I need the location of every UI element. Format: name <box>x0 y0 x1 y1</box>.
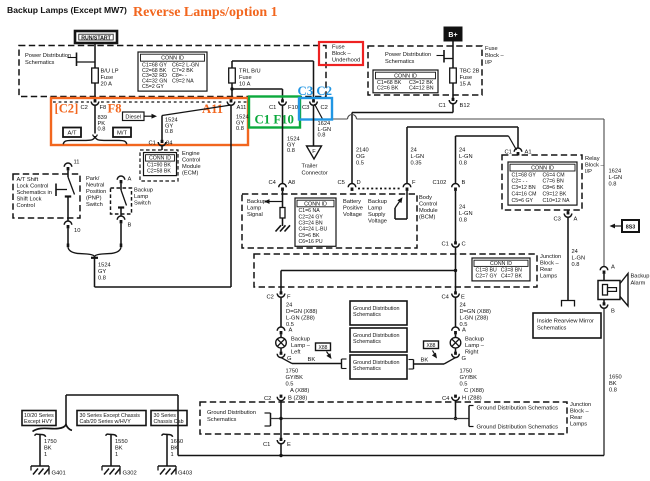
variant tag X88 <box>424 341 439 349</box>
svg-text:Lamp: Lamp <box>368 206 382 212</box>
svg-text:C (X88): C (X88) <box>464 388 484 394</box>
fuse B/U LP 20 A <box>92 68 99 83</box>
svg-text:B12: B12 <box>460 103 470 109</box>
svg-text:Block –: Block – <box>570 409 589 415</box>
svg-text:I/P: I/P <box>585 169 592 175</box>
connector C2 <box>280 395 283 398</box>
svg-text:C1=6 NA: C1=6 NA <box>299 208 321 214</box>
svg-text:D: D <box>357 180 361 186</box>
trailer connector symbol <box>307 146 322 159</box>
svg-text:Ground Distribution Schematics: Ground Distribution Schematics <box>477 406 559 412</box>
svg-text:1750: 1750 <box>44 439 57 445</box>
svg-text:C5=6 BK: C5=6 BK <box>299 233 320 239</box>
backup lamp signal arrow <box>267 201 283 203</box>
connector C1 F10 <box>281 99 284 102</box>
junction <box>230 87 233 90</box>
connector 11 <box>64 163 72 167</box>
svg-text:Left: Left <box>291 350 301 356</box>
wire crossover hop <box>348 115 357 120</box>
connector C4 E <box>454 291 457 294</box>
wire <box>230 105 232 287</box>
connector C3 A <box>567 210 569 212</box>
relay block dashed box <box>502 155 582 210</box>
svg-text:C6=16 PU: C6=16 PU <box>299 239 323 245</box>
connector F <box>403 184 411 188</box>
svg-text:Backup: Backup <box>368 199 387 205</box>
svg-text:Block –: Block – <box>585 163 604 169</box>
svg-text:Schematics: Schematics <box>353 339 381 345</box>
svg-text:0.8: 0.8 <box>98 127 106 133</box>
svg-text:C: C <box>462 242 466 248</box>
svg-text:(ECM): (ECM) <box>182 171 199 177</box>
svg-text:Battery: Battery <box>343 199 361 205</box>
svg-text:1750: 1750 <box>460 369 473 375</box>
svg-text:X88: X88 <box>319 345 328 351</box>
variant tag X88 <box>316 343 331 351</box>
svg-text:Junction: Junction <box>540 254 561 260</box>
svg-text:G302: G302 <box>123 471 137 477</box>
conn ID table junction block <box>472 258 530 281</box>
svg-text:Relay: Relay <box>585 156 600 162</box>
svg-text:(PNP): (PNP) <box>86 196 102 202</box>
svg-text:24: 24 <box>460 303 466 309</box>
svg-text:Neutral: Neutral <box>86 183 104 189</box>
svg-text:C102: C102 <box>433 180 447 186</box>
box Ground Distribution Schematics 2 <box>350 328 407 352</box>
svg-text:Power Distribution: Power Distribution <box>25 53 71 59</box>
wire <box>280 297 282 327</box>
svg-text:Control: Control <box>182 158 200 164</box>
svg-text:C1: C1 <box>439 103 446 109</box>
svg-text:Schematics: Schematics <box>353 366 381 372</box>
wire <box>94 83 96 100</box>
wire <box>67 228 69 243</box>
svg-text:[C2]: [C2] <box>55 102 79 116</box>
svg-text:C2=24 GY: C2=24 GY <box>299 214 324 220</box>
svg-text:Schematics: Schematics <box>25 60 55 66</box>
svg-text:E: E <box>287 442 291 448</box>
svg-text:C4=12 BN: C4=12 BN <box>409 86 434 92</box>
svg-text:Cab/20 Series w/HVY: Cab/20 Series w/HVY <box>80 419 132 425</box>
svg-text:1: 1 <box>44 452 47 458</box>
svg-text:Backup: Backup <box>465 337 484 343</box>
svg-text:Schematics: Schematics <box>385 59 415 65</box>
wire <box>94 43 96 68</box>
engine control module dashed box <box>140 150 178 181</box>
svg-text:0.8: 0.8 <box>572 262 580 268</box>
body control module dashed box <box>242 194 417 248</box>
ground tie wire <box>271 418 456 420</box>
svg-text:(BCM): (BCM) <box>419 215 436 221</box>
fuse block - underhood dashed box <box>19 46 326 97</box>
svg-text:Schematics: Schematics <box>207 417 237 423</box>
svg-text:F: F <box>412 180 416 186</box>
svg-text:CONN ID: CONN ID <box>490 261 512 267</box>
wire <box>282 191 284 208</box>
svg-text:D=GN (X88): D=GN (X88) <box>460 309 492 315</box>
junction block - rear lamps dashed box <box>254 254 537 287</box>
svg-text:Park/: Park/ <box>86 176 100 182</box>
svg-text:Lamp: Lamp <box>247 206 261 212</box>
wire <box>313 105 315 146</box>
svg-text:0.8: 0.8 <box>318 133 326 139</box>
wire <box>280 401 282 438</box>
conn ID table fuse block underhood <box>138 52 207 91</box>
svg-text:X88: X88 <box>427 343 436 349</box>
svg-text:0.8: 0.8 <box>459 218 467 224</box>
backup lamp switch dashed box <box>111 188 132 214</box>
svg-text:C2=7 GY C4=7 BK: C2=7 GY C4=7 BK <box>476 274 523 280</box>
svg-text:TBC 2B: TBC 2B <box>460 69 480 75</box>
svg-text:C4: C4 <box>442 295 450 301</box>
backup lamp switch <box>121 190 127 206</box>
connector C1 B12 <box>452 98 455 101</box>
junction block - rear lamps dashed box (lower) <box>200 402 567 434</box>
connector A <box>277 327 285 331</box>
junction <box>454 269 457 272</box>
svg-text:B: B <box>462 180 466 186</box>
svg-text:BK: BK <box>171 446 179 452</box>
svg-text:G403: G403 <box>178 471 192 477</box>
reference bracket <box>55 184 57 197</box>
svg-text:C3=24 BN: C3=24 BN <box>299 221 323 227</box>
BCM internal driver <box>406 191 408 219</box>
svg-text:CONN ID: CONN ID <box>531 166 554 172</box>
svg-text:F: F <box>287 295 291 301</box>
connector A11 <box>230 99 233 102</box>
svg-text:B: B <box>128 223 132 229</box>
svg-text:C7=6 BN: C7=6 BN <box>543 179 564 185</box>
connector A <box>600 267 608 271</box>
svg-text:Rear: Rear <box>540 267 552 273</box>
wire <box>120 223 122 243</box>
svg-text:G: G <box>462 356 467 362</box>
highlight box cyan <box>299 98 332 120</box>
fuse block - I/P dashed box <box>368 46 482 95</box>
svg-text:0.5: 0.5 <box>286 382 294 388</box>
svg-text:1: 1 <box>115 452 118 458</box>
svg-text:Schematics: Schematics <box>353 312 381 318</box>
svg-text:C1 F10: C1 F10 <box>255 113 294 127</box>
svg-text:0.5: 0.5 <box>356 161 364 167</box>
svg-text:1550: 1550 <box>115 439 128 445</box>
wire <box>452 83 454 98</box>
svg-text:L-GN (Z88): L-GN (Z88) <box>460 316 489 322</box>
svg-text:Module: Module <box>182 164 201 170</box>
wire <box>517 127 519 148</box>
box 30 Series Except Chassis Cab/20 Series w/HVY <box>77 411 146 426</box>
connector A <box>452 327 460 331</box>
svg-text:C2: C2 <box>264 396 271 402</box>
svg-text:0.8: 0.8 <box>98 276 106 282</box>
svg-text:CONN ID: CONN ID <box>394 73 417 79</box>
wire diesel branch <box>162 105 231 116</box>
svg-text:C2=6 BK: C2=6 BK <box>377 86 399 92</box>
arrow <box>144 115 153 117</box>
wire <box>231 61 233 68</box>
svg-text:GY/BK: GY/BK <box>286 375 304 381</box>
svg-text:Lock Control: Lock Control <box>17 184 49 190</box>
svg-text:Switch: Switch <box>86 202 103 208</box>
off-page reference 8S3 <box>610 224 616 229</box>
connector C2 F8 <box>94 99 97 102</box>
svg-text:GY: GY <box>98 269 106 275</box>
svg-text:24: 24 <box>459 148 465 154</box>
box Diesel <box>123 112 145 121</box>
svg-text:Backup Lamps (Except MW7): Backup Lamps (Except MW7) <box>7 5 127 15</box>
svg-text:24: 24 <box>459 205 465 211</box>
wire BK ground branch <box>444 358 456 364</box>
svg-text:BK: BK <box>308 357 316 363</box>
svg-text:Inside Rearview Mirror: Inside Rearview Mirror <box>537 319 594 325</box>
reference bracket <box>68 57 77 59</box>
svg-text:Lamps: Lamps <box>540 274 557 280</box>
svg-text:Switch: Switch <box>134 201 151 207</box>
svg-text:Supply: Supply <box>368 212 386 218</box>
svg-text:A: A <box>462 328 466 334</box>
wire <box>161 146 163 150</box>
dashed connector face line <box>53 101 89 103</box>
svg-text:L-GN: L-GN <box>609 175 623 181</box>
svg-text:G401: G401 <box>52 471 66 477</box>
svg-text:C8=6 BK: C8=6 BK <box>543 185 564 191</box>
svg-text:Underhood: Underhood <box>332 58 360 64</box>
svg-text:C4: C4 <box>442 396 450 402</box>
svg-text:OG: OG <box>356 154 365 160</box>
svg-text:A/T Shift: A/T Shift <box>17 177 39 183</box>
wire <box>280 444 282 456</box>
svg-text:C2: C2 <box>321 105 328 111</box>
svg-text:A11: A11 <box>237 105 247 111</box>
wire <box>281 270 456 272</box>
reference fork to mirror schematics <box>562 301 575 307</box>
svg-text:C10=12 NA: C10=12 NA <box>543 198 571 204</box>
connector B <box>117 216 125 220</box>
svg-text:20 A: 20 A <box>101 82 113 88</box>
svg-text:24: 24 <box>286 303 292 309</box>
wire <box>455 191 457 242</box>
wire merge brace <box>68 247 95 257</box>
svg-text:0.8: 0.8 <box>609 388 617 394</box>
reference bracket <box>456 418 470 420</box>
svg-text:Module: Module <box>419 208 438 214</box>
svg-text:BK: BK <box>115 446 123 452</box>
power symbol RUN/START <box>75 31 117 43</box>
wire <box>603 274 605 281</box>
box 30 Series Chassis Cab <box>151 411 187 426</box>
fuse TBC 2B 15 A <box>450 68 457 83</box>
svg-text:Fuse: Fuse <box>485 46 498 52</box>
connector C5 D <box>348 184 356 188</box>
park/neutral position switch <box>67 170 69 177</box>
box M/T <box>113 128 131 138</box>
svg-text:C5=2 GY: C5=2 GY <box>142 84 164 90</box>
box Ground Distribution Schematics 3 <box>350 355 407 379</box>
svg-text:Backup: Backup <box>247 199 266 205</box>
wire 1624 L-GN <box>315 104 323 119</box>
reference bracket <box>270 413 272 426</box>
svg-text:BK: BK <box>609 381 617 387</box>
wire <box>603 119 605 267</box>
connector B <box>603 302 606 305</box>
svg-text:CONN ID: CONN ID <box>149 156 171 162</box>
svg-text:B/U LP: B/U LP <box>101 69 119 75</box>
svg-text:C1: C1 <box>269 105 276 111</box>
svg-text:F8: F8 <box>108 102 122 116</box>
svg-text:0.8: 0.8 <box>165 129 173 135</box>
svg-text:Connector: Connector <box>302 171 328 177</box>
svg-text:E: E <box>461 295 465 301</box>
svg-text:B (Z88): B (Z88) <box>288 395 307 401</box>
svg-text:A/T: A/T <box>67 131 76 137</box>
svg-text:H (Z88): H (Z88) <box>462 395 482 401</box>
connector C4 A8 <box>279 184 287 188</box>
svg-text:Engine: Engine <box>182 151 200 157</box>
svg-text:Junction: Junction <box>570 402 591 408</box>
svg-text:A (X88): A (X88) <box>290 388 309 394</box>
conn ID table ECM <box>144 153 177 176</box>
svg-text:C1: C1 <box>149 141 156 147</box>
svg-text:Reverse Lamps/option 1: Reverse Lamps/option 1 <box>133 5 278 20</box>
svg-text:Except HVY: Except HVY <box>24 419 53 425</box>
svg-text:F: F <box>312 149 316 155</box>
fuse TRL B/U 10 A <box>229 68 236 83</box>
reference bracket <box>341 359 343 369</box>
backup alarm (speaker) <box>598 281 620 300</box>
svg-text:Schematics: Schematics <box>537 326 567 332</box>
wire <box>603 300 605 303</box>
connector A <box>117 176 125 180</box>
wire <box>455 297 457 327</box>
conn ID table relay block <box>508 162 577 205</box>
svg-text:I/P: I/P <box>485 60 492 66</box>
svg-text:TRL B/U: TRL B/U <box>239 69 261 75</box>
wire split brace <box>63 137 95 145</box>
svg-text:Block –: Block – <box>540 261 559 267</box>
svg-text:Ground Distribution: Ground Distribution <box>207 410 256 416</box>
svg-text:Block –: Block – <box>485 53 504 59</box>
svg-text:C4: C4 <box>269 180 277 186</box>
svg-text:C4=16 CM: C4=16 CM <box>512 192 537 198</box>
svg-text:0.5: 0.5 <box>460 382 468 388</box>
svg-text:Backup: Backup <box>631 274 650 280</box>
wire BK ground branch <box>281 358 292 364</box>
wire <box>455 401 457 419</box>
svg-text:Schematics in: Schematics in <box>17 190 52 196</box>
svg-text:24: 24 <box>572 249 578 255</box>
svg-text:Position: Position <box>86 189 106 195</box>
svg-text:8S3: 8S3 <box>626 225 636 231</box>
svg-text:C2=58 BK: C2=58 BK <box>147 168 171 174</box>
svg-text:Alarm: Alarm <box>631 281 646 287</box>
svg-text:C1: C1 <box>263 442 270 448</box>
svg-text:Lamp –: Lamp – <box>291 343 311 349</box>
svg-text:A: A <box>611 265 615 271</box>
svg-text:1: 1 <box>171 452 174 458</box>
svg-text:Positive: Positive <box>343 206 363 212</box>
svg-text:C2: C2 <box>81 105 88 111</box>
svg-text:CONN ID: CONN ID <box>161 56 184 62</box>
svg-text:C1=68 GY: C1=68 GY <box>512 172 537 178</box>
connector G <box>454 352 457 355</box>
reference bracket <box>413 360 415 370</box>
svg-text:C2: C2 <box>267 295 274 301</box>
svg-text:Lamps: Lamps <box>570 422 587 428</box>
fuse block - underhood red highlight box <box>319 42 363 65</box>
svg-text:A: A <box>289 328 293 334</box>
svg-text:C9=2 NA: C9=2 NA <box>172 79 194 85</box>
connector C4 <box>454 395 457 398</box>
svg-text:Lamp –: Lamp – <box>465 343 485 349</box>
svg-text:1524: 1524 <box>98 263 111 269</box>
wire <box>282 105 284 183</box>
highlight box orange <box>51 98 248 145</box>
svg-text:Fuse: Fuse <box>460 75 473 81</box>
svg-text:24: 24 <box>411 148 417 154</box>
svg-text:Lamp: Lamp <box>134 194 148 200</box>
wire <box>94 258 96 287</box>
svg-text:C5=6 GY: C5=6 GY <box>512 198 534 204</box>
svg-text:L-GN: L-GN <box>459 154 473 160</box>
svg-text:84: 84 <box>166 141 173 147</box>
svg-text:Backup: Backup <box>134 188 153 194</box>
svg-text:RUN/START: RUN/START <box>81 35 111 41</box>
resistor (lamp signal pull) <box>280 208 285 219</box>
ground branch G302 <box>106 434 117 437</box>
wire <box>455 247 457 270</box>
svg-text:L-GN (Z88): L-GN (Z88) <box>286 316 315 322</box>
wire <box>603 308 605 455</box>
wire <box>567 217 569 300</box>
svg-text:1624: 1624 <box>609 169 622 175</box>
svg-text:Control: Control <box>17 203 35 209</box>
svg-text:C2= - -: C2= - - <box>512 179 528 185</box>
svg-text:Rear: Rear <box>570 415 582 421</box>
svg-text:15 A: 15 A <box>460 82 472 88</box>
svg-text:2140: 2140 <box>356 148 369 154</box>
svg-text:A8: A8 <box>288 180 295 186</box>
dotted connector tie line <box>358 188 402 190</box>
svg-text:C5: C5 <box>338 180 345 186</box>
conn ID table fuse block I/P <box>373 70 438 93</box>
box Inside Rearview Mirror Schematics <box>533 313 601 338</box>
svg-text:BK: BK <box>421 358 429 364</box>
svg-text:L-GN: L-GN <box>572 256 586 262</box>
lamp Backup Lamp - Right <box>455 334 457 337</box>
junction <box>279 417 282 420</box>
svg-text:Trailer: Trailer <box>302 164 318 170</box>
svg-text:C1: C1 <box>442 242 449 248</box>
svg-text:0.35: 0.35 <box>411 161 422 167</box>
svg-text:A: A <box>128 177 132 183</box>
internal ground <box>276 225 282 231</box>
svg-text:C3: C3 <box>554 217 561 223</box>
lamp Backup Lamp - Left <box>280 334 282 337</box>
connector C3 C2 <box>312 99 315 102</box>
svg-text:Power Distribution: Power Distribution <box>385 52 431 58</box>
junction <box>454 417 457 420</box>
svg-text:0.8: 0.8 <box>236 126 244 132</box>
wire branch <box>509 136 517 150</box>
svg-text:CONN ID: CONN ID <box>304 201 327 207</box>
wire <box>282 218 284 226</box>
svg-text:Voltage: Voltage <box>343 212 362 218</box>
power symbol B+ <box>444 27 462 41</box>
connector C102 B <box>452 184 460 188</box>
svg-text:10 A: 10 A <box>239 82 251 88</box>
svg-text:10: 10 <box>74 228 80 234</box>
svg-text:C6=4 CM: C6=4 CM <box>543 172 565 178</box>
